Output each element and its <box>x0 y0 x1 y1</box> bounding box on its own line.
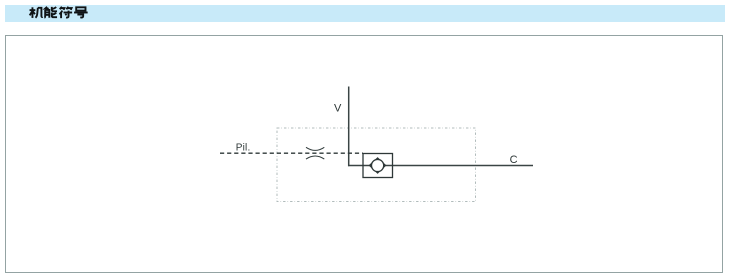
svg-text:C: C <box>510 154 518 166</box>
svg-text:Pil.: Pil. <box>236 143 251 154</box>
svg-text:V: V <box>334 103 342 115</box>
